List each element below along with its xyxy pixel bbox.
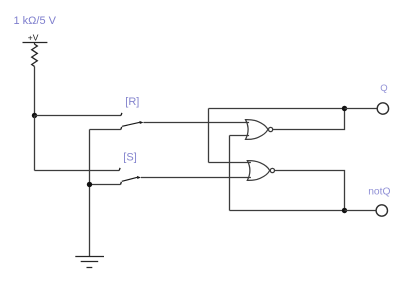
wire node X down to S-switch corner: [34, 116, 36, 171]
wire S-switch top contact (crosses ground rail): [35, 170, 120, 172]
ground rail junction dot: [87, 182, 92, 187]
S-switch bottom contact tick: [120, 182, 123, 185]
wire U2 output to notQ node corner: [275, 171, 345, 211]
wire notQ feedback vertical: [229, 136, 231, 211]
ground symbol: [75, 257, 104, 268]
power supply bar: [23, 43, 48, 45]
wire notQ feedback to NOR U1 input B: [230, 135, 250, 137]
wire Q feedback to NOR U2 input A: [209, 162, 251, 164]
switch S1 blade [R]: [122, 122, 140, 126]
wire notQ node to notQ terminal: [345, 210, 377, 212]
NOR gate U2 body: [247, 161, 269, 181]
wire R-switch top contact: [35, 115, 122, 117]
Q node junction dot: [342, 106, 347, 111]
NOR gate U1 body: [246, 120, 268, 140]
R-switch top contact tick: [120, 113, 123, 116]
wire notQ feedback horizontal (to notQ node): [230, 210, 345, 212]
svg-text:1 kΩ/5 V: 1 kΩ/5 V: [14, 15, 57, 27]
wire Q feedback horizontal (Q node to left): [209, 108, 345, 110]
NOR gate U1 output bubble: [269, 127, 273, 131]
wire ground rail vertical: [89, 130, 91, 257]
NOR gate U2 output bubble: [270, 168, 274, 172]
switch S2 blade arrowhead: [137, 176, 141, 179]
node X junction dot: [32, 113, 37, 118]
notQ output terminal circle: [376, 205, 387, 216]
notQ node junction dot: [342, 208, 347, 213]
wire R common to NOR U1 input A: [144, 122, 250, 124]
wire R-switch bottom contact: [90, 129, 121, 131]
svg-text:Q: Q: [380, 83, 387, 94]
wire U1 output to Q node corner: [273, 109, 345, 130]
R-switch bottom contact tick: [120, 127, 123, 130]
wire Q feedback vertical down: [208, 109, 210, 163]
svg-text:[S]: [S]: [123, 151, 136, 163]
svg-text:notQ: notQ: [368, 187, 390, 198]
wire S-switch bottom contact: [90, 184, 121, 186]
wire S common to NOR U2 input B: [141, 177, 251, 179]
resistor R1: [32, 44, 38, 66]
svg-text:+V: +V: [28, 33, 39, 43]
switch S2 blade [S]: [122, 177, 138, 181]
Q output terminal circle: [377, 103, 388, 114]
wire resistor bottom to node X: [34, 66, 36, 115]
svg-text:[R]: [R]: [125, 96, 139, 108]
switch S1 blade arrowhead: [140, 121, 144, 124]
wire Q node to Q terminal: [345, 108, 378, 110]
S-switch top contact tick: [118, 168, 121, 171]
